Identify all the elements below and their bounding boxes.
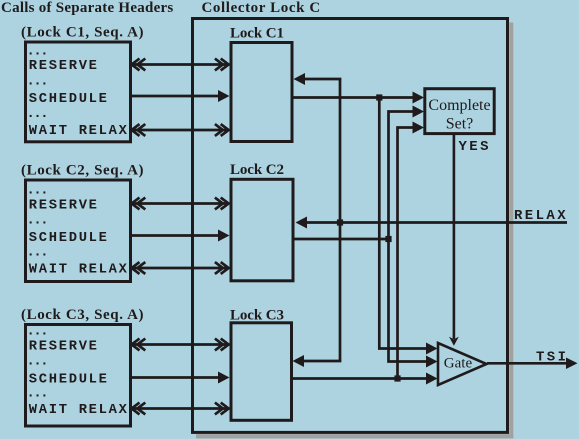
lock box C1: [231, 43, 292, 142]
svg-text:...: ...: [27, 107, 48, 122]
svg-text:...: ...: [27, 355, 48, 370]
wire: L1 WAIT RELAX bidirectional: [131, 124, 229, 136]
wire: C3 feedback vertical to Complete Set: [398, 122, 425, 379]
svg-text:(Lock C1, Seq. A): (Lock C1, Seq. A): [21, 25, 144, 41]
svg-text:YES: YES: [459, 139, 491, 155]
svg-text:...: ...: [27, 75, 48, 90]
wire: L3 SCHEDULE arrow: [131, 372, 230, 384]
collector box shadow: [196, 23, 513, 439]
wire: L3 RESERVE bidirectional: [131, 339, 229, 351]
svg-text:Collector Lock C: Collector Lock C: [202, 0, 321, 16]
Gate triangle: [438, 343, 487, 385]
svg-text:Complete: Complete: [428, 97, 490, 114]
junction Lock C3 output: [394, 375, 400, 381]
svg-text:WAIT RELAX: WAIT RELAX: [29, 403, 129, 418]
svg-text:(Lock C2, Seq. A): (Lock C2, Seq. A): [21, 163, 144, 179]
svg-text:...: ...: [27, 387, 48, 402]
wire: TSI output: [487, 358, 578, 370]
wire: L1 RESERVE bidirectional: [131, 59, 229, 71]
svg-text:...: ...: [27, 184, 48, 199]
wire: Lock C1 output to Complete Set: [293, 92, 425, 104]
wire: Lock C2 output: [293, 238, 390, 241]
wire: C1 vertical down to Gate: [379, 98, 437, 355]
svg-text:...: ...: [27, 325, 48, 340]
wire: Lock C3 output to Gate: [292, 373, 438, 385]
wire: L2 SCHEDULE arrow: [131, 230, 230, 242]
svg-text:Calls of Separate Headers: Calls of Separate Headers: [1, 0, 173, 16]
junction on RELAX line: [337, 219, 343, 225]
svg-text:Lock C3: Lock C3: [230, 307, 284, 323]
svg-text:TSI: TSI: [536, 350, 568, 366]
svg-text:Set?: Set?: [446, 116, 474, 133]
svg-text:...: ...: [27, 246, 48, 261]
svg-text:...: ...: [27, 214, 48, 229]
wire: L2 WAIT RELAX bidirectional: [131, 262, 229, 274]
wire: L2 RESERVE bidirectional: [131, 198, 229, 210]
svg-text:(Lock C3, Seq. A): (Lock C3, Seq. A): [21, 307, 144, 323]
wire: L1 SCHEDULE arrow: [131, 90, 230, 102]
wire: RELAX branch into Lock C1: [294, 73, 341, 85]
junction on Lock C1 output: [376, 94, 382, 100]
wire: RELAX branch into Lock C3: [293, 355, 341, 367]
wire: L3 WAIT RELAX bidirectional: [131, 403, 229, 415]
svg-text:SCHEDULE: SCHEDULE: [29, 231, 109, 246]
svg-text:Gate: Gate: [444, 356, 473, 372]
caller box L3: [26, 325, 131, 427]
Complete Set box: [425, 89, 494, 134]
svg-text:...: ...: [27, 45, 48, 60]
svg-text:RESERVE: RESERVE: [29, 339, 99, 354]
caller box L1: [26, 42, 131, 142]
svg-text:RESERVE: RESERVE: [29, 198, 99, 213]
collector box: [193, 19, 508, 433]
svg-text:SCHEDULE: SCHEDULE: [29, 372, 109, 387]
svg-text:RELAX: RELAX: [514, 208, 568, 224]
svg-text:WAIT RELAX: WAIT RELAX: [29, 262, 129, 277]
lock box C3: [231, 323, 292, 421]
lock box C2: [231, 179, 293, 280]
junction Lock C2 output: [385, 236, 391, 242]
svg-text:RESERVE: RESERVE: [29, 59, 99, 74]
caller box L2: [26, 180, 131, 282]
svg-text:Lock C1: Lock C1: [230, 25, 284, 41]
wire: C2 feedback vertical to Complete Set: [389, 106, 438, 368]
svg-text:Lock C2: Lock C2: [230, 162, 284, 178]
wire: YES vertical to Gate: [449, 134, 459, 346]
svg-text:SCHEDULE: SCHEDULE: [29, 92, 109, 107]
svg-text:WAIT RELAX: WAIT RELAX: [29, 124, 129, 139]
wire: RELAX horizontal into Lock C2: [296, 217, 568, 229]
wire: RELAX distribution vertical: [339, 79, 342, 361]
